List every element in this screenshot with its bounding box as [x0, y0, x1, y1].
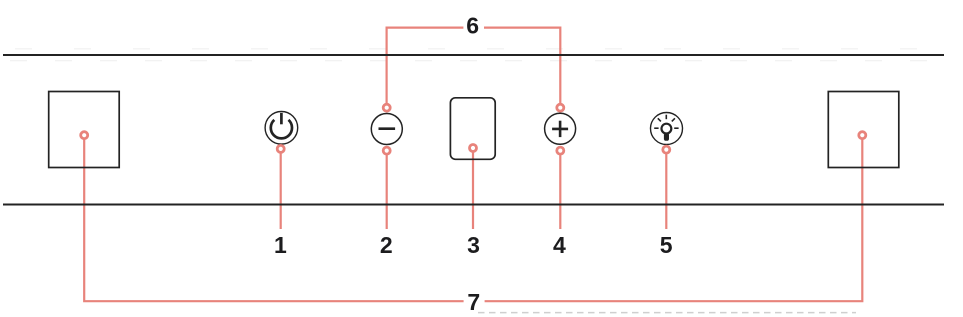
svg-text:5: 5: [660, 232, 673, 258]
svg-text:2: 2: [380, 232, 393, 258]
svg-text:3: 3: [467, 232, 480, 258]
svg-text:7: 7: [467, 289, 480, 315]
svg-text:6: 6: [466, 13, 479, 39]
svg-text:4: 4: [553, 232, 566, 258]
svg-text:1: 1: [274, 232, 287, 258]
